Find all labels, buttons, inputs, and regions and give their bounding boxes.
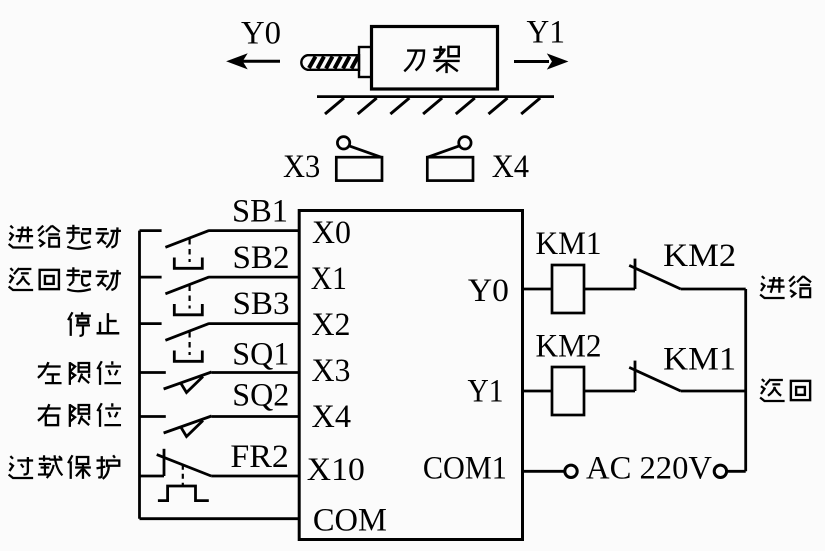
label 返回 (return)	[760, 379, 810, 401]
wire SB2 left	[140, 276, 162, 279]
svg-text:KM1: KM1	[663, 342, 736, 378]
ground line under tool rest	[317, 97, 554, 114]
pushbutton SB3 (NO)	[165, 323, 209, 361]
wire FR2 left	[140, 475, 165, 478]
wire SB3 to X2	[209, 322, 299, 325]
piston rod (hatched)	[301, 55, 359, 70]
limit switch contact SQ1	[164, 372, 212, 393]
contact KM2 (NC)	[629, 259, 681, 289]
svg-text:SQ2: SQ2	[232, 378, 289, 414]
svg-text:X1: X1	[311, 261, 347, 297]
wire FR2 to X10	[211, 475, 299, 478]
svg-text:X0: X0	[312, 215, 351, 251]
svg-text:AC 220V: AC 220V	[586, 451, 712, 487]
label 进给起动 (feed start)	[9, 225, 121, 249]
svg-text:FR2: FR2	[230, 439, 289, 475]
svg-text:X3: X3	[283, 149, 320, 185]
rod flange	[359, 47, 372, 77]
contactor coil KM2	[552, 367, 584, 415]
svg-text:Y0: Y0	[468, 273, 509, 309]
svg-text:X4: X4	[492, 149, 529, 185]
wire COM1 to AC terminal	[523, 470, 565, 473]
thermal relay contact FR2 (NC)	[157, 449, 212, 501]
wire coil KM1 to contact	[584, 288, 635, 291]
wire contact to right rail (返回 line)	[681, 390, 746, 393]
svg-text:Y1: Y1	[527, 15, 566, 51]
limit switch contact SQ2	[164, 416, 212, 437]
label 进给 (feed)	[760, 276, 811, 298]
label 过载保护 (overload protection)	[9, 455, 120, 479]
svg-text:X4: X4	[312, 399, 352, 435]
right rail	[744, 289, 747, 471]
label 停止 (stop)	[68, 312, 119, 336]
svg-text:SB1: SB1	[232, 193, 288, 229]
svg-text:SQ1: SQ1	[232, 337, 289, 373]
PLC box	[299, 211, 522, 540]
wire SQ1 left	[140, 371, 166, 374]
wire COM	[140, 517, 300, 520]
svg-text:COM1: COM1	[423, 451, 507, 487]
wire Y0 to coil	[523, 288, 553, 291]
contactor coil KM1	[552, 265, 584, 313]
svg-text:COM: COM	[313, 503, 387, 539]
svg-text:SB3: SB3	[233, 286, 290, 322]
label 左限位 (left limit)	[38, 361, 121, 385]
svg-text:KM1: KM1	[536, 226, 602, 262]
svg-text:KM2: KM2	[536, 329, 602, 365]
svg-text:Y1: Y1	[468, 373, 504, 409]
svg-text:Y0: Y0	[241, 15, 281, 51]
input common bus (left vertical)	[138, 231, 141, 519]
svg-text:KM2: KM2	[663, 238, 736, 274]
limit switch icon X3	[336, 137, 382, 181]
arrow Y0 (left)	[228, 54, 281, 68]
pushbutton SB1 (NO)	[165, 230, 209, 268]
wire SQ2 left	[140, 415, 166, 418]
label 右限位 (right limit)	[38, 403, 121, 427]
contact KM1 (NC)	[629, 361, 681, 391]
tool-rest box (刀架)	[372, 27, 498, 90]
AC terminal right	[714, 465, 726, 477]
wire contact to right rail (进给 line)	[681, 288, 746, 291]
label 返回起动 (return start)	[9, 267, 121, 291]
wire SB3 left	[140, 322, 162, 325]
svg-text:X3: X3	[312, 353, 351, 389]
wire SB1 left	[140, 229, 162, 232]
arrow Y1 (right)	[514, 54, 567, 68]
limit switch icon X4	[427, 137, 473, 181]
wire coil KM2 to contact	[584, 390, 635, 393]
svg-text:X2: X2	[312, 307, 351, 343]
svg-text:SB2: SB2	[233, 240, 290, 276]
wire SQ2 to X4	[212, 415, 300, 418]
AC terminal left	[565, 465, 577, 477]
label 刀架 (tool rest)	[404, 46, 459, 73]
wire Y1 to coil	[523, 390, 553, 393]
wire SQ1 to X3	[212, 371, 300, 374]
svg-text:X10: X10	[307, 452, 365, 488]
wire AC terminal to rail	[726, 470, 746, 473]
pushbutton SB2 (NO)	[165, 277, 209, 315]
wire SB1 to X0	[209, 229, 299, 232]
wire SB2 to X1	[209, 276, 299, 279]
